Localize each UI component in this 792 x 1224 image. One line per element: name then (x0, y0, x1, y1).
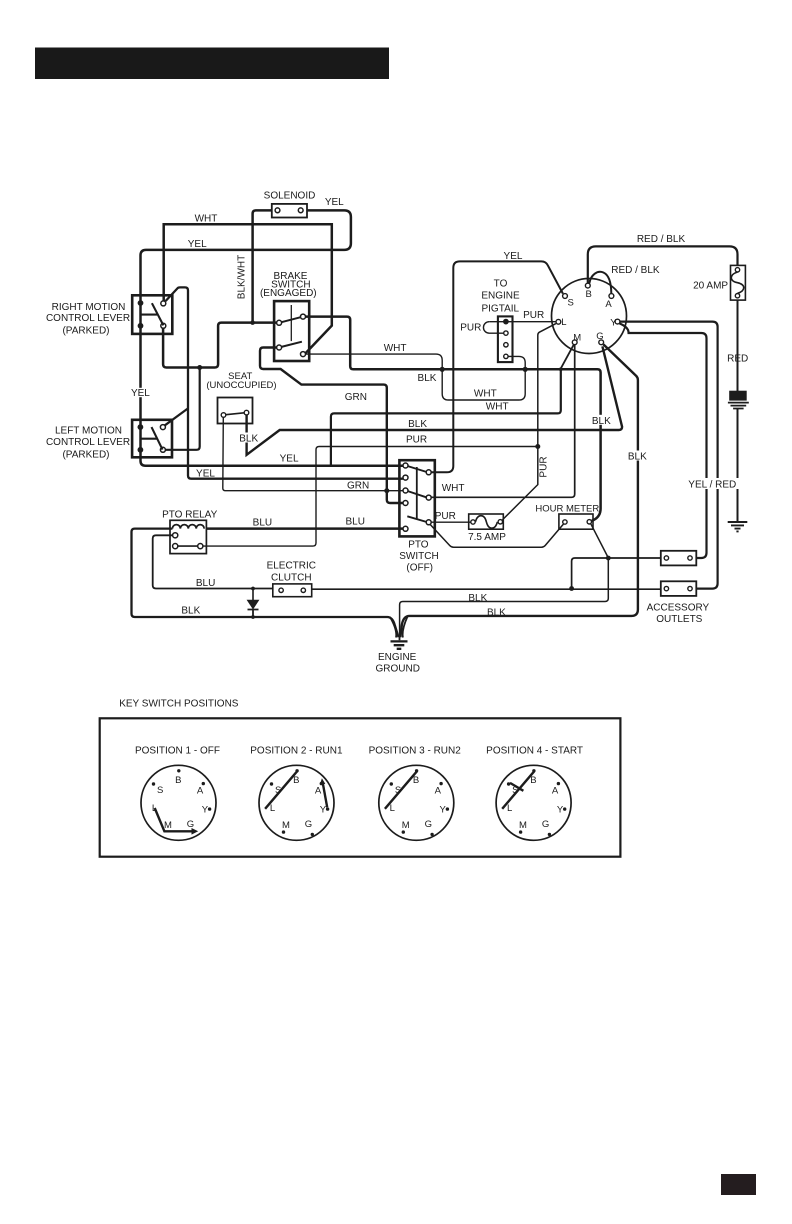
solenoid (272, 204, 307, 218)
wire BLK bus2: seat right terminal down, diagonal, right, diagonal up to key G (247, 346, 622, 454)
wire PUR key L to engine pigtail t1 (489, 321, 556, 323)
label YEL / RED (686, 478, 739, 489)
title redaction bar (35, 48, 389, 80)
wire battery to chassis ground (737, 408, 739, 521)
svg-text:PUR: PUR (538, 456, 549, 477)
wire WHT loop: brake lower-right to pigtail t4, through bus1 dots (306, 354, 526, 400)
7.5 AMP fuse (469, 514, 504, 529)
svg-text:CONTROL LEVER: CONTROL LEVER (46, 437, 130, 448)
wire BLK from P1 down and left into ground funnel (400, 558, 609, 638)
svg-text:S: S (275, 785, 281, 796)
svg-text:BLK: BLK (487, 607, 506, 618)
svg-text:G: G (305, 819, 312, 830)
svg-text:GRN: GRN (347, 481, 369, 492)
svg-text:B: B (175, 775, 181, 786)
key switch positions legend box (100, 718, 621, 856)
wire YEL branch: from y465 line up at x331, right at y413.4, up to bus1 (331, 369, 561, 465)
junction dot diode top (251, 587, 255, 591)
legend position 3 circle (379, 765, 454, 840)
svg-text:G: G (542, 819, 549, 830)
svg-text:M: M (519, 820, 527, 831)
svg-text:WHT: WHT (486, 402, 509, 413)
svg-text:(OFF): (OFF) (406, 563, 433, 574)
wire M vertical down and left to PTO right t2 (431, 345, 575, 498)
junction dot P1 on line C (606, 556, 611, 561)
chassis ground (battery) (728, 522, 748, 531)
svg-text:PTO RELAY: PTO RELAY (162, 510, 218, 521)
svg-text:YEL: YEL (325, 197, 344, 208)
diode (248, 589, 259, 618)
svg-text:ENGINE: ENGINE (378, 652, 417, 663)
brake switch (274, 301, 309, 361)
svg-text:7.5 AMP: 7.5 AMP (468, 532, 506, 543)
right motion control lever switch (132, 295, 172, 334)
svg-text:Y: Y (610, 317, 617, 328)
svg-text:S: S (395, 785, 401, 796)
svg-text:(PARKED): (PARKED) (62, 449, 109, 460)
battery (728, 391, 749, 408)
label YEL at lever vertical (131, 388, 151, 397)
svg-text:BLK: BLK (181, 606, 200, 617)
svg-text:Y: Y (202, 804, 209, 815)
svg-text:WHT: WHT (474, 388, 497, 399)
svg-text:WHT: WHT (195, 214, 218, 225)
wire hour meter right diagonal to junction P1 (591, 524, 609, 558)
svg-text:S: S (157, 785, 163, 796)
page number redaction block (721, 1174, 756, 1195)
svg-text:BLU: BLU (253, 518, 272, 529)
key switch (552, 279, 627, 354)
svg-text:(PARKED): (PARKED) (62, 326, 109, 337)
wire BLU left stub and BLK down-left side to ground funnel (132, 529, 399, 638)
svg-text:YEL: YEL (188, 239, 207, 250)
accessory outlet 1 (661, 551, 697, 566)
svg-text:G: G (596, 331, 603, 342)
wire BLU/clutch line right to accessory outlet 2 left (306, 588, 665, 590)
wire line C: from clutch line up and right to accessory outlet 1 left (572, 558, 665, 589)
wire PUR PTO right t3 to 7.5A fuse left (431, 521, 471, 523)
wire YEL from key S: diagonal, left, down to PTO right t1 (431, 261, 563, 472)
svg-text:(ENGAGED): (ENGAGED) (260, 288, 317, 299)
svg-text:PTO: PTO (408, 540, 429, 551)
svg-text:B: B (530, 775, 536, 786)
svg-text:SOLENOID: SOLENOID (264, 191, 316, 202)
wire lever right lower-right terminal to brake upper-left (163, 323, 276, 368)
svg-text:CLUTCH: CLUTCH (271, 573, 312, 584)
svg-text:RED / BLK: RED / BLK (637, 234, 686, 245)
junction dot BLK/WHT on brake feed wire (250, 320, 255, 325)
wire RED: 20A fuse to battery (737, 300, 739, 391)
svg-text:BLK: BLK (592, 416, 611, 427)
svg-text:B: B (413, 775, 419, 786)
svg-text:PIGTAIL: PIGTAIL (481, 304, 519, 315)
legend pos4 spur from S (510, 783, 523, 791)
left motion control lever switch (132, 420, 172, 458)
svg-text:YEL: YEL (504, 251, 523, 262)
svg-text:B: B (586, 289, 592, 300)
svg-text:G: G (425, 819, 432, 830)
svg-text:B: B (293, 775, 299, 786)
wire RED/BLK jumper arc B to A (589, 272, 611, 293)
wire BLK: key G diagonal, long vertical down, left to ground funnel (400, 344, 638, 637)
junction dot WHT loop right leg on bus1 (523, 367, 528, 372)
20 AMP fuse (731, 265, 746, 300)
wire PUR curl into pigtail t2 (483, 322, 503, 334)
wire YEL main: solenoid right terminal, down, left, down through levers, to PTO t1 (141, 210, 403, 465)
svg-text:GRN: GRN (345, 392, 367, 403)
svg-text:L: L (390, 803, 395, 814)
wire bus1 WHT: brake upper-right, down, right, down to hour meter right (306, 317, 601, 521)
wire PUR horizontal line to PTO relay lower-right (203, 447, 538, 547)
svg-text:BLK: BLK (408, 419, 427, 430)
svg-text:PUR: PUR (523, 310, 544, 321)
svg-text:KEY SWITCH POSITIONS: KEY SWITCH POSITIONS (119, 699, 239, 710)
accessory outlet 2 (661, 581, 697, 596)
svg-text:POSITION 4 - START: POSITION 4 - START (486, 746, 583, 757)
svg-text:S: S (568, 297, 574, 308)
svg-text:GROUND: GROUND (375, 663, 419, 674)
svg-text:L: L (270, 803, 275, 814)
svg-text:CONTROL LEVER: CONTROL LEVER (46, 313, 130, 324)
label BLK bus2 (591, 415, 613, 425)
legend position 4 circle (496, 765, 571, 840)
svg-text:POSITION 2 - RUN1: POSITION 2 - RUN1 (250, 746, 343, 757)
svg-text:A: A (197, 786, 204, 797)
wire Y lower to accessory outlet 1 right (620, 323, 707, 558)
svg-text:L: L (561, 317, 566, 328)
svg-text:ENGINE: ENGINE (481, 290, 520, 301)
svg-text:YEL / RED: YEL / RED (688, 480, 736, 491)
svg-text:L: L (152, 803, 157, 814)
svg-text:PUR: PUR (460, 323, 481, 334)
wire left lever lower-right terminal up to junction (166, 368, 200, 450)
wire M diagonal to bus1 (561, 345, 574, 369)
junction dot lower-right lever riser on y367 wire (197, 365, 202, 370)
svg-text:RED / BLK: RED / BLK (611, 265, 660, 276)
svg-text:A: A (605, 299, 612, 310)
svg-text:20 AMP: 20 AMP (693, 280, 728, 291)
engine ground symbol (391, 641, 408, 648)
wire GRN: brake lower-left zigzag down to PTO t4 (260, 348, 403, 504)
svg-text:A: A (435, 786, 442, 797)
svg-text:BLK: BLK (239, 434, 258, 445)
electric clutch (273, 584, 312, 597)
svg-text:(UNOCCUPIED): (UNOCCUPIED) (206, 380, 276, 391)
svg-text:ELECTRIC: ELECTRIC (267, 561, 316, 572)
junction dot PUR line on key-L vertical (535, 444, 540, 449)
svg-text:POSITION 1 - OFF: POSITION 1 - OFF (135, 746, 220, 757)
PTO relay (170, 520, 206, 553)
legend position 2 circle (259, 765, 334, 840)
PTO switch (399, 460, 434, 536)
svg-text:POSITION 3 - RUN2: POSITION 3 - RUN2 (369, 746, 462, 757)
svg-text:BLU: BLU (196, 578, 215, 589)
junction dot GRN vertical on PTO t3 line (384, 488, 389, 493)
svg-text:PUR: PUR (406, 435, 427, 446)
svg-text:WHT: WHT (442, 483, 465, 494)
svg-text:OUTLETS: OUTLETS (656, 614, 702, 625)
svg-text:Y: Y (557, 804, 564, 815)
svg-text:SWITCH: SWITCH (399, 551, 438, 562)
svg-text:M: M (573, 333, 581, 344)
svg-text:BLU: BLU (345, 516, 364, 527)
svg-text:BLK/WHT: BLK/WHT (237, 255, 248, 299)
legend pos2 blade A-Y (323, 783, 327, 807)
svg-text:LEFT MOTION: LEFT MOTION (55, 426, 122, 437)
wire RED/BLK: key B up, right, down to 20A fuse (588, 246, 738, 283)
legend pos3 blade L-B (385, 771, 417, 809)
svg-text:M: M (402, 820, 410, 831)
svg-text:M: M (282, 820, 290, 831)
svg-text:TO: TO (494, 278, 508, 289)
legend pos4 blade L-B (502, 771, 534, 809)
label BLK G vertical (627, 451, 649, 461)
wire hour meter left feed from PTO t3 area (430, 524, 563, 547)
svg-text:A: A (315, 786, 322, 797)
hour meter (559, 514, 593, 529)
svg-text:A: A (552, 786, 559, 797)
svg-text:Y: Y (320, 804, 327, 815)
svg-text:YEL: YEL (131, 388, 150, 399)
wire right lever upper-right diagonal, down x188, to PTO t2 (166, 287, 403, 478)
svg-text:PUR: PUR (435, 511, 456, 522)
junction dot WHT loop left leg on bus1 (440, 367, 445, 372)
svg-text:S: S (512, 785, 518, 796)
wire relay left-mid terminal down to clutch line (153, 535, 279, 588)
svg-text:YEL: YEL (196, 469, 215, 480)
legend position 1 circle (141, 765, 216, 840)
svg-text:L: L (507, 803, 512, 814)
legend pos1 blade L-M and arrow to G (155, 808, 193, 831)
wire GRN thin: seat left terminal down and right into PTO t3 (223, 417, 403, 490)
svg-text:YEL: YEL (280, 454, 299, 465)
legend pos2 blade L-B (265, 771, 297, 809)
svg-text:Y: Y (440, 804, 447, 815)
svg-text:WHT: WHT (384, 343, 407, 354)
svg-text:RIGHT MOTION: RIGHT MOTION (52, 302, 126, 313)
svg-text:M: M (164, 820, 172, 831)
svg-text:ACCESSORY: ACCESSORY (647, 603, 710, 614)
legend terminal dots (152, 769, 567, 836)
junction dot M diagonal on bus1 (559, 367, 563, 371)
label BLK seat drop (238, 433, 260, 443)
svg-text:HOUR METER: HOUR METER (535, 503, 599, 514)
engine pigtail connector (498, 316, 513, 362)
wire ground funnel stem (390, 617, 408, 641)
wire PUR: key L diagonal down, long vertical, diagonal into 7.5A fuse right (502, 324, 556, 520)
wire Y upper to accessory outlet 2 right (620, 322, 718, 589)
junction dot clutch line / outlet drop (569, 586, 574, 591)
svg-text:BLK: BLK (418, 373, 437, 384)
wire BLU main from relay coil to PTO t5 (206, 527, 403, 530)
wire WHT: right lever top-right up, across, down to brake lower-right (164, 224, 332, 353)
svg-text:RED: RED (727, 353, 748, 364)
junction dot diode bottom (251, 615, 255, 619)
wire BLK/WHT: solenoid left terminal down to lever-brake wire (253, 210, 275, 322)
seat switch (218, 398, 253, 424)
svg-text:BLK: BLK (628, 452, 647, 463)
svg-text:BLK: BLK (468, 593, 487, 604)
wire left lever upper-right diagonal to x188 vertical (165, 408, 188, 425)
svg-text:G: G (187, 819, 194, 830)
